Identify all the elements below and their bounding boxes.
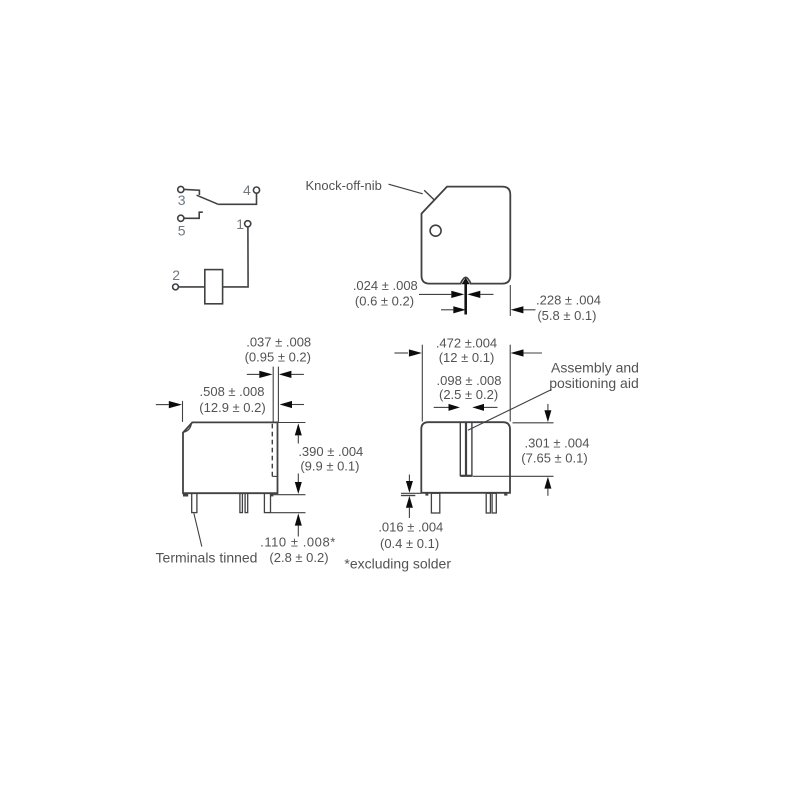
dimension .016 down arrow xyxy=(408,475,410,482)
dimension .390 top arrow xyxy=(295,423,302,435)
case bottom-right step xyxy=(271,493,274,496)
relay case outline (top view) with chamfered corner and bottom nib bump xyxy=(422,187,511,284)
svg-text:2: 2 xyxy=(172,267,180,283)
knock-off nib mark xyxy=(424,190,434,200)
terminal pin middle pair xyxy=(240,493,243,512)
dimension .472 right arrow xyxy=(524,352,543,354)
dimension .024 right arrow xyxy=(480,293,493,295)
positioning slot outer lines xyxy=(459,422,461,476)
dimension .508 right arrow xyxy=(292,404,304,406)
dimension .037 left arrow xyxy=(247,373,259,375)
svg-text:Knock-off-nib: Knock-off-nib xyxy=(306,178,382,193)
body width extension lines xyxy=(421,345,423,422)
terminal 4 circle xyxy=(253,187,259,193)
svg-text:(12.9 ± 0.2): (12.9 ± 0.2) xyxy=(199,400,265,415)
terminal 3 circle xyxy=(178,186,184,192)
terminal 2 circle xyxy=(173,284,179,290)
leader line from assembly label to slot xyxy=(468,390,552,431)
svg-text:.472 ±.004: .472 ±.004 xyxy=(436,335,497,350)
wire terminal 2 to coil xyxy=(179,286,205,288)
dimension .016 up arrow xyxy=(406,496,413,508)
svg-text:(12 ± 0.1): (12 ± 0.1) xyxy=(439,350,495,365)
svg-text:Assembly and: Assembly and xyxy=(551,359,639,375)
wire terminal 1 to coil xyxy=(223,227,249,287)
svg-text:(5.8 ± 0.1): (5.8 ± 0.1) xyxy=(537,308,596,323)
svg-text:.228 ± .004: .228 ± .004 xyxy=(536,292,601,307)
leader line from Knock-off-nib text xyxy=(389,184,423,194)
dimension .390 bottom arrow xyxy=(295,482,302,494)
svg-text:.037 ± .008: .037 ± .008 xyxy=(246,334,311,349)
standoff extension lines .016 xyxy=(401,492,421,494)
svg-text:4: 4 xyxy=(243,182,251,198)
svg-text:.110 ± .008*: .110 ± .008* xyxy=(260,534,336,549)
positioning slot bottom xyxy=(460,475,472,477)
relay case outline (side view) with chamfered top-left corner xyxy=(183,422,278,493)
svg-text:(0.6 ± 0.2): (0.6 ± 0.2) xyxy=(355,293,414,308)
dimension .472 left arrow xyxy=(394,352,408,354)
svg-text:.098 ± .008: .098 ± .008 xyxy=(437,373,502,388)
dimension .098 right arrow xyxy=(484,406,498,408)
svg-text:positioning aid: positioning aid xyxy=(549,375,639,391)
svg-text:.016 ± .004: .016 ± .004 xyxy=(378,519,443,534)
dimension .228 left arrow (points right at nib) xyxy=(441,309,453,311)
dimension .301 top arrow (down) xyxy=(547,404,549,410)
svg-text:(7.65 ± 0.1): (7.65 ± 0.1) xyxy=(521,451,587,466)
svg-text:.390 ± .004: .390 ± .004 xyxy=(298,444,363,459)
dimension .098 left arrow xyxy=(434,406,449,408)
wire from terminal 5 (NC stub) xyxy=(184,212,203,218)
wire to terminal 4 xyxy=(218,194,256,205)
svg-text:(0.4 ± 0.1): (0.4 ± 0.1) xyxy=(380,536,439,551)
leader line to Terminals tinned xyxy=(194,513,202,546)
svg-text:1: 1 xyxy=(236,216,244,232)
terminal width extension lines xyxy=(272,367,274,422)
terminal pin right xyxy=(264,493,270,512)
hidden terminal bottom tick xyxy=(272,475,277,477)
dimension .024 left arrow xyxy=(419,293,451,295)
relay case outline (front view) xyxy=(421,422,510,493)
svg-text:*excluding solder: *excluding solder xyxy=(344,556,451,572)
hidden terminal dashed line xyxy=(271,424,273,477)
body width extension line (left) xyxy=(182,401,184,422)
dimension .037 right arrow xyxy=(291,373,304,375)
terminal 1 circle xyxy=(245,221,251,227)
positioning slot inner line xyxy=(465,422,467,475)
front view left pin xyxy=(431,493,439,513)
terminal 5 circle xyxy=(178,215,184,221)
right edge extension line xyxy=(509,285,511,316)
locating hole circle xyxy=(430,225,441,236)
svg-text:3: 3 xyxy=(178,192,186,208)
svg-text:Terminals tinned: Terminals tinned xyxy=(156,549,258,565)
front view right pin pair xyxy=(486,493,490,513)
svg-text:5: 5 xyxy=(178,223,186,239)
nib pointer arrow (up) with shaft xyxy=(462,278,470,284)
body height bottom extension line xyxy=(272,494,306,496)
top extension line for .301 xyxy=(513,422,554,424)
svg-text:.024 ± .008: .024 ± .008 xyxy=(353,278,418,293)
svg-text:(9.9 ± 0.1): (9.9 ± 0.1) xyxy=(300,458,359,473)
bottom extension line for .301 (slot bottom level) xyxy=(473,475,554,477)
svg-text:.508 ± .008: .508 ± .008 xyxy=(200,384,265,399)
dimension .301 bottom arrow (up) xyxy=(544,477,551,489)
svg-text:(0.95 ± 0.2): (0.95 ± 0.2) xyxy=(245,349,311,364)
coil K1 xyxy=(205,270,223,304)
svg-text:(2.5 ± 0.2): (2.5 ± 0.2) xyxy=(439,387,498,402)
case bottom step marks xyxy=(425,493,428,496)
switch arm (movable contact) xyxy=(197,195,219,204)
terminal pin left xyxy=(192,493,197,512)
dimension .228 right arrow (points left at edge) xyxy=(523,309,535,311)
case bottom-left step xyxy=(183,493,188,496)
dimension .508 left arrow xyxy=(156,404,169,406)
svg-text:(2.8 ± 0.2): (2.8 ± 0.2) xyxy=(269,550,328,565)
knock-off nib mark (side view crescent) xyxy=(184,423,191,432)
terminal bottom extension line xyxy=(271,512,306,514)
svg-text:.301 ± .004: .301 ± .004 xyxy=(525,436,590,451)
wire from terminal 3 xyxy=(184,189,199,195)
body height top extension line xyxy=(279,422,306,424)
dimension .110 arrow xyxy=(295,513,302,525)
